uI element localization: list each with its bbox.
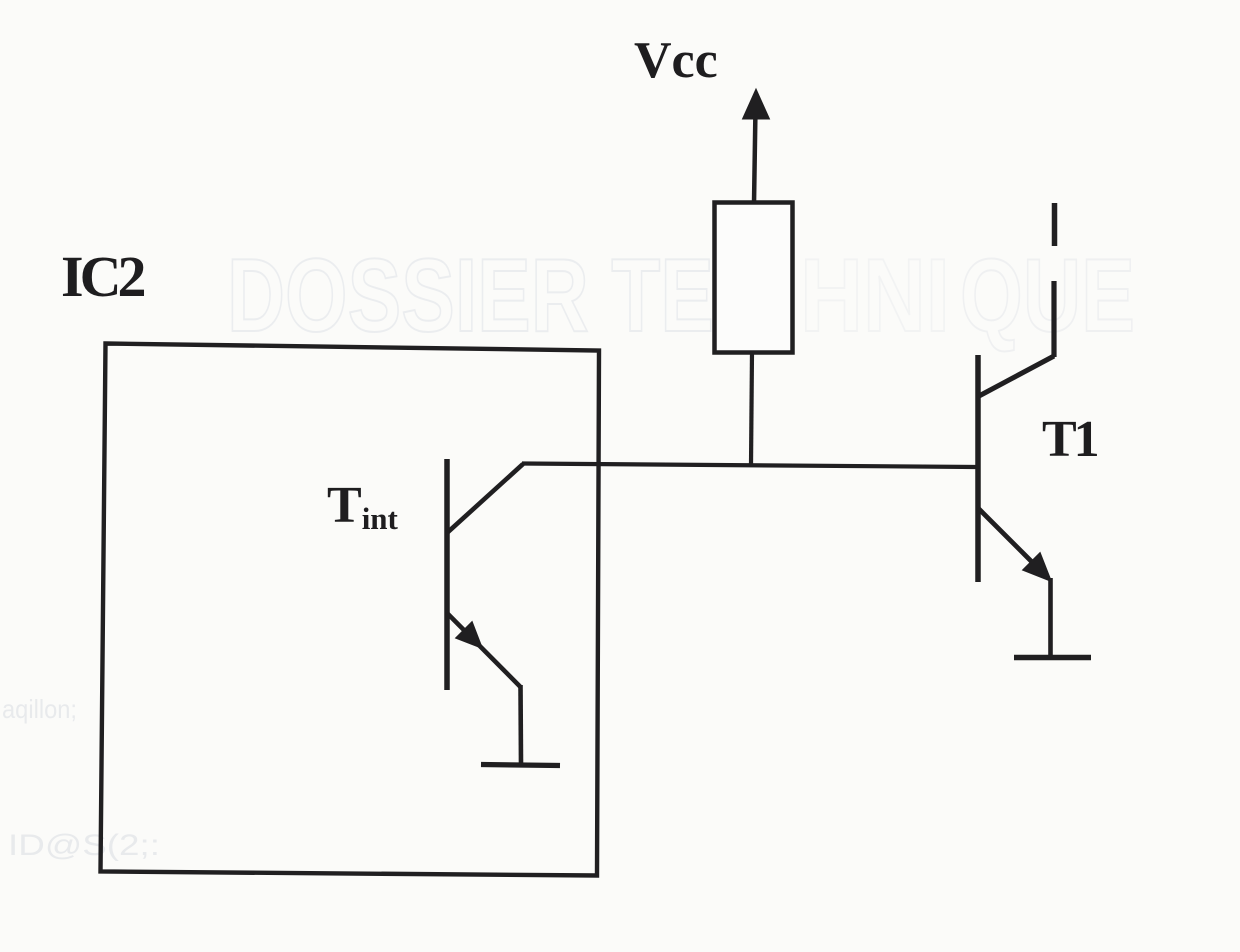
wire: horizontal net from Tint collector to T1 base xyxy=(522,464,976,468)
svg-text:T1: T1 xyxy=(1042,411,1098,468)
ground (Tint emitter) xyxy=(481,765,560,766)
svg-text:DOSSIER TEC: DOSSIER TEC xyxy=(227,238,772,354)
svg-text:aqillon;: aqillon; xyxy=(2,694,77,724)
resistor (pull-up, unlabeled) xyxy=(715,203,793,353)
svg-text:QUE: QUE xyxy=(960,238,1135,354)
power Vcc arrow xyxy=(743,89,770,204)
wire: resistor bottom lead down to collector node xyxy=(751,352,752,465)
svg-text:ID@S(2;:: ID@S(2;: xyxy=(8,829,160,862)
wire: T1 collector stub above break xyxy=(1052,203,1058,246)
transistor T1 (NPN) xyxy=(978,281,1054,656)
IC block IC2 (box) xyxy=(101,344,600,876)
ground (T1 emitter) xyxy=(1014,655,1091,660)
transistor Tint (NPN inside IC2) xyxy=(447,459,523,764)
svg-text:Vcc: Vcc xyxy=(634,32,718,89)
svg-text:HNI: HNI xyxy=(800,238,950,354)
svg-text:IC2: IC2 xyxy=(61,244,144,309)
